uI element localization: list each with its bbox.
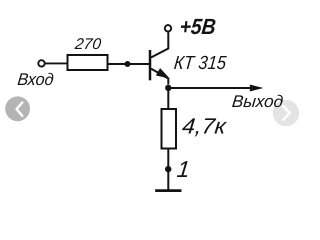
ground: [155, 189, 181, 192]
terminal: input circle: [38, 60, 44, 66]
wire: R1 to transistor base: [109, 63, 150, 65]
terminal: +5V circle: [165, 25, 171, 31]
left nav button: [5, 96, 30, 121]
svg-text:270: 270: [73, 36, 102, 53]
transistor VT1 collector lead: [151, 32, 168, 57]
junction dot on base wire: [125, 61, 131, 67]
wire: junction to R2: [167, 88, 169, 109]
wire: input terminal to R1: [45, 62, 67, 64]
wire: R2 to ground: [167, 149, 169, 190]
transistor VT1 emitter lead: [151, 69, 168, 85]
resistor R2 box: [162, 109, 177, 149]
svg-text:1: 1: [176, 156, 192, 182]
svg-text:+5В: +5В: [178, 14, 217, 39]
node 1 junction dot: [165, 166, 171, 172]
output arrowhead: [250, 85, 264, 92]
wire: output line: [168, 87, 251, 89]
svg-text:КТ 315: КТ 315: [173, 53, 228, 74]
transistor VT1 emitter arrowhead: [157, 69, 168, 78]
node: emitter output junction: [165, 85, 171, 91]
svg-text:4,7к: 4,7к: [181, 114, 229, 139]
svg-text:Выход: Выход: [231, 92, 284, 111]
resistor R1 box: [68, 55, 108, 70]
transistor VT1 base bar: [149, 50, 152, 80]
svg-text:Вход: Вход: [17, 70, 55, 89]
right nav button: [273, 100, 299, 126]
